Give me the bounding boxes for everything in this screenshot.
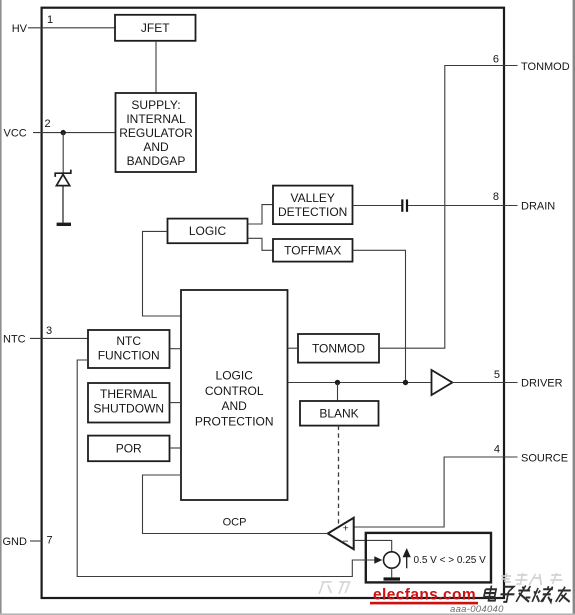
svg-text:8: 8: [493, 191, 499, 203]
driver buffer U2: [432, 370, 453, 395]
svg-text:CONTROL: CONTROL: [205, 384, 264, 398]
svg-text:TONMOD: TONMOD: [312, 341, 365, 355]
svg-text:SHUTDOWN: SHUTDOWN: [93, 402, 164, 416]
wire THERMAL SHUTDOWN to LOGIC CONTROL: [170, 402, 182, 404]
ground bar of current source: [384, 577, 401, 580]
IC outline box: [42, 8, 504, 598]
block LOGIC CONTROL AND PROTECTION: [181, 290, 288, 500]
svg-text:LOGIC: LOGIC: [189, 224, 227, 238]
watermark chinese 电子发烧友: [483, 586, 573, 602]
svg-text:AND: AND: [222, 399, 248, 413]
block SUPPLY: INTERNAL REGULATOR AND BANDGAP: [116, 93, 197, 172]
svg-text:JFET: JFET: [141, 21, 170, 35]
svg-text:3: 3: [46, 325, 52, 337]
block JFET: [115, 15, 196, 41]
image frame right gray edge: [573, 0, 575, 615]
block TONMOD: [298, 334, 379, 363]
svg-text:GND: GND: [3, 536, 28, 548]
pin 4 SOURCE net to comparator: [354, 457, 518, 527]
svg-text:REGULATOR: REGULATOR: [119, 126, 193, 140]
svg-text:1: 1: [47, 14, 53, 26]
svg-text:0.5 V < > 0.25 V: 0.5 V < > 0.25 V: [414, 555, 487, 566]
junction dot TOFFMAX tap: [403, 380, 408, 385]
pin 8 DRAIN wire: [408, 205, 517, 207]
control arrowhead into current source: [374, 556, 382, 564]
svg-text:elecfans.com: elecfans.com: [373, 587, 476, 604]
junction dot BLANK tap: [335, 380, 340, 385]
svg-text:THERMAL: THERMAL: [100, 387, 158, 401]
svg-text:2: 2: [44, 118, 50, 130]
wire LOGIC to VALLEY DETECTION: [248, 205, 274, 224]
wire LOGIC to TOFFMAX: [248, 238, 274, 250]
svg-text:5: 5: [494, 369, 500, 381]
OCP output net to LOGIC CONTROL: [143, 475, 328, 534]
svg-text:FUNCTION: FUNCTION: [98, 349, 160, 363]
svg-text:TOFFMAX: TOFFMAX: [284, 244, 341, 258]
svg-text:INTERNAL: INTERNAL: [126, 112, 186, 126]
reference box 0.5V block: [366, 533, 491, 583]
svg-text:4: 4: [494, 444, 500, 456]
svg-text:NTC: NTC: [116, 334, 141, 348]
wire JFET to SUPPLY: [155, 41, 157, 93]
junction dot VCC/zener: [61, 130, 66, 135]
wire LOGIC CONTROL to TONMOD: [288, 347, 299, 349]
svg-text:TONMOD: TONMOD: [521, 61, 570, 73]
selection up arrow: [404, 550, 410, 569]
wire current source to ground bar: [391, 568, 393, 577]
wire tap to BLANK: [337, 383, 339, 402]
block THERMAL SHUTDOWN: [88, 383, 170, 423]
svg-text:LOGIC: LOGIC: [216, 368, 254, 382]
svg-text:PROTECTION: PROTECTION: [195, 415, 274, 429]
svg-text:6: 6: [493, 54, 499, 66]
NTC control net to current source: [77, 360, 374, 577]
svg-text:7: 7: [46, 535, 52, 547]
pin 2 VCC wire: [33, 132, 116, 134]
comparator OCP U3: [328, 518, 354, 549]
watermark ghost glyphs right: [499, 573, 564, 585]
wire NTC FUNCTION to LOGIC CONTROL: [170, 348, 182, 350]
pin 3 NTC wire: [30, 337, 88, 339]
svg-text:+: +: [343, 523, 349, 535]
block POR: [88, 436, 170, 462]
block VALLEY DETECTION: [273, 186, 353, 225]
svg-text:HV: HV: [12, 23, 28, 35]
capacitor to DRAIN: [401, 199, 408, 211]
pin 5 DRIVER wire: [452, 382, 517, 384]
pin 1 HV wire: [28, 27, 115, 29]
current source I1: [384, 552, 400, 568]
svg-text:SUPPLY:: SUPPLY:: [131, 98, 180, 112]
block TOFFMAX: [273, 239, 353, 262]
svg-text:DRAIN: DRAIN: [521, 201, 555, 213]
wire LOGIC to LOGIC CONTROL: [143, 231, 182, 316]
zener diode D1: [55, 170, 71, 225]
svg-text:BLANK: BLANK: [319, 407, 358, 421]
net TOFFMAX to driver line: [353, 250, 406, 382]
watermark underline: [370, 602, 478, 605]
block LOGIC: [168, 219, 248, 244]
net comparator minus to current source: [354, 540, 392, 551]
image frame left gray edge: [0, 0, 2, 615]
block NTC FUNCTION: [88, 330, 170, 368]
wire VALLEY DETECTION to capacitor: [353, 205, 402, 207]
wire VCC to zener: [62, 133, 64, 173]
dashed blanking line BLANK to OCP comparator: [338, 426, 340, 525]
net TONMOD block to pin 6: [379, 66, 518, 349]
svg-text:DRIVER: DRIVER: [521, 378, 563, 390]
wire LOGIC CONTROL to driver: [288, 382, 432, 384]
svg-text:−: −: [342, 535, 348, 547]
watermark ghost glyphs left: [319, 582, 350, 594]
svg-text:VCC: VCC: [4, 128, 27, 140]
svg-text:BANDGAP: BANDGAP: [127, 154, 186, 168]
svg-text:NTC: NTC: [3, 333, 26, 345]
svg-text:OCP: OCP: [223, 517, 247, 529]
pin 7 GND wire: [30, 540, 42, 542]
svg-text:VALLEY: VALLEY: [290, 191, 334, 205]
image frame bottom gray edge: [0, 613, 575, 615]
svg-text:AND: AND: [143, 140, 169, 154]
wire POR to LOGIC CONTROL: [170, 447, 182, 449]
svg-text:SOURCE: SOURCE: [521, 452, 568, 464]
svg-text:DETECTION: DETECTION: [278, 205, 347, 219]
svg-text:POR: POR: [116, 442, 142, 456]
svg-text:aaa-004040: aaa-004040: [450, 604, 504, 615]
block BLANK: [300, 401, 379, 426]
